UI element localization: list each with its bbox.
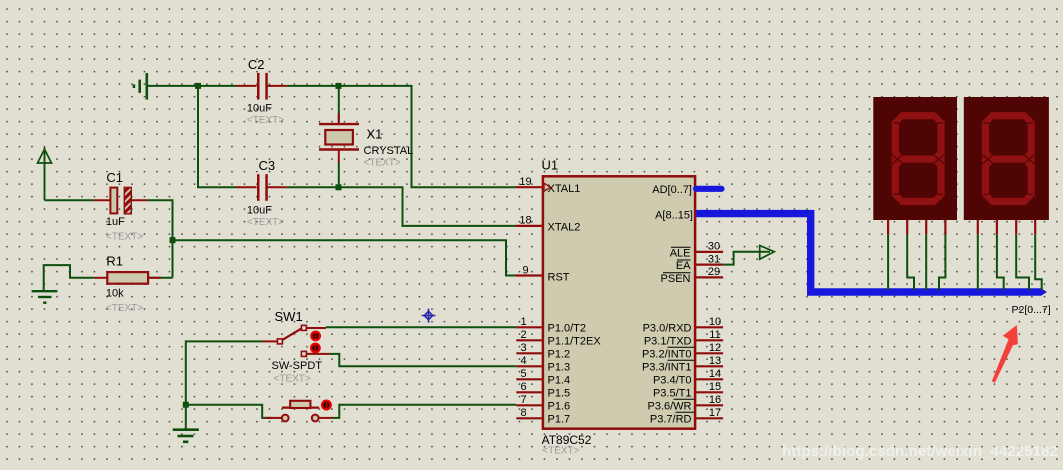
pin 11 P3.1/TXD (644, 329, 723, 347)
pin 9 RST (515, 264, 569, 283)
svg-text:P3.6/WR: P3.6/WR (647, 401, 691, 413)
pin 14 P3.4/T0 (653, 368, 723, 386)
7-segment display DS2 (964, 97, 1049, 220)
pin 7 P1.6 (516, 394, 570, 412)
junction X1 top (336, 83, 342, 89)
svg-text:5: 5 (520, 368, 526, 380)
svg-text:P2[0...7]: P2[0...7] (1012, 304, 1051, 316)
pin 6 P1.5 (516, 381, 570, 399)
pin 2 P1.1/T2EX (516, 329, 601, 347)
svg-text:<TEXT>: <TEXT> (364, 157, 401, 168)
svg-text:<TEXT>: <TEXT> (247, 217, 284, 228)
wire junction to ground (185, 405, 187, 429)
capacitor C2 (237, 57, 288, 126)
svg-text:https://blog.csdn.net/weixin_4: https://blog.csdn.net/weixin_44225182 (782, 443, 1058, 460)
svg-text:1uF: 1uF (106, 216, 125, 228)
ground (below SW1) (173, 430, 199, 442)
wire DS1 pin c (925, 235, 927, 290)
display pin stub (887, 220, 889, 235)
resistor R1 (94, 253, 173, 314)
wire SW1 top to P1.0 pin1 (326, 326, 516, 328)
display pin stub (944, 220, 946, 235)
ground (rotated, oscillator rail) (134, 73, 147, 100)
switch badge 2 (310, 343, 321, 354)
svg-text:P3.1/TXD: P3.1/TXD (644, 336, 692, 348)
push button (266, 401, 333, 422)
wire rail to button (186, 405, 273, 418)
display pin stub (996, 220, 998, 235)
svg-text:C1: C1 (106, 170, 123, 185)
pin 18 XTAL2 (515, 215, 580, 234)
svg-text:P3.3/INT1: P3.3/INT1 (642, 362, 692, 374)
wire node to RST pin9 (173, 240, 516, 275)
wire SW1 common to ground rail (186, 341, 263, 404)
svg-text:AD[0..7]: AD[0..7] (652, 184, 692, 196)
svg-text:18: 18 (519, 215, 531, 227)
svg-text:P1.4: P1.4 (548, 375, 571, 387)
wire C1 to RST node (147, 200, 172, 278)
7-segment display DS1 (873, 97, 957, 220)
wire XTAL1 rail top (147, 85, 237, 87)
svg-text:12: 12 (709, 342, 721, 354)
svg-text:P3.5/T1: P3.5/T1 (653, 388, 692, 400)
display pin stub (925, 220, 927, 235)
svg-text:1: 1 (520, 316, 526, 328)
svg-text:P1.5: P1.5 (548, 388, 571, 400)
svg-text:P3.2/INT0: P3.2/INT0 (642, 349, 692, 361)
svg-text:4: 4 (520, 355, 526, 367)
svg-text:<TEXT>: <TEXT> (247, 115, 284, 126)
svg-text:C3: C3 (259, 158, 276, 173)
svg-text:10uF: 10uF (247, 102, 272, 114)
pin 13 P3.3/INT1 (642, 355, 723, 373)
IC U1 AT89C52 (542, 158, 696, 457)
display pin stub (977, 220, 979, 235)
pin 31 EA (676, 253, 723, 272)
origin crosshair marker (422, 309, 436, 323)
svg-text:U1: U1 (542, 158, 559, 173)
svg-text:2: 2 (520, 329, 526, 341)
svg-text:C2: C2 (248, 57, 265, 72)
wire DS1 pin a (887, 235, 889, 290)
svg-text:P1.0/T2: P1.0/T2 (548, 323, 587, 335)
wire DS2 pin d (1035, 235, 1042, 290)
wire R1 to ground (44, 265, 94, 291)
svg-text:31: 31 (708, 253, 720, 265)
wire DS1 pin d (939, 235, 945, 290)
svg-text:7: 7 (520, 394, 526, 406)
svg-text:<TEXT>: <TEXT> (542, 446, 579, 457)
svg-text:XTAL1: XTAL1 (548, 183, 581, 195)
pin 15 P3.5/T1 (653, 381, 723, 399)
svg-text:9: 9 (522, 264, 528, 276)
svg-text:10: 10 (709, 316, 721, 328)
wire VCC to C1 (45, 199, 94, 201)
wire C3 rail (198, 86, 237, 187)
pin 19 XTAL1 (515, 176, 580, 195)
svg-text:19: 19 (519, 176, 531, 188)
svg-text:X1: X1 (367, 127, 383, 142)
svg-text:P1.6: P1.6 (548, 401, 571, 413)
wire EA to power terminal (723, 252, 770, 265)
svg-text:29: 29 (708, 266, 720, 278)
svg-text:10uF: 10uF (247, 205, 272, 217)
power terminal EA arrow (760, 246, 775, 260)
wire SW1 bottom to P1.3 pin4 (329, 354, 516, 366)
wire DS2 pin c (1016, 235, 1029, 290)
wire C3 to XTAL2 pin18 (287, 187, 515, 226)
pin 1 P1.0/T2 (516, 316, 586, 334)
svg-text:6: 6 (520, 381, 526, 393)
svg-text:SW-SPDT: SW-SPDT (272, 360, 323, 372)
svg-text:A[8..15]: A[8..15] (655, 210, 693, 222)
pin 29 PSEN (661, 266, 724, 285)
ground (left of R1) (32, 291, 58, 303)
wire DS2 pin b (997, 235, 1004, 290)
svg-text:<TEXT>: <TEXT> (106, 231, 143, 242)
wire button to P1.6 pin7 (333, 405, 517, 418)
svg-text:XTAL2: XTAL2 (548, 222, 581, 234)
svg-text:EA: EA (676, 260, 691, 272)
crystal X1 (319, 87, 413, 186)
svg-text:P1.1/T2EX: P1.1/T2EX (548, 336, 602, 348)
switch SW1 SPDT (263, 309, 329, 384)
pin 12 P3.2/INT0 (642, 342, 723, 360)
svg-text:16: 16 (709, 394, 721, 406)
svg-text:13: 13 (709, 355, 721, 367)
pin 5 P1.4 (516, 368, 570, 386)
XTAL1 clock arrow (544, 183, 551, 191)
svg-text:RST: RST (548, 271, 570, 283)
pin 17 P3.7/RD (650, 407, 723, 425)
junction node top rail (195, 83, 201, 89)
svg-text:8: 8 (520, 407, 526, 419)
svg-text:10k: 10k (106, 288, 124, 300)
wire DS1 pin b (907, 235, 914, 290)
capacitor C3 (237, 158, 288, 228)
svg-text:30: 30 (708, 241, 720, 253)
button badge (321, 400, 332, 411)
pin 16 P3.6/WR (647, 394, 723, 412)
svg-text:P3.4/T0: P3.4/T0 (653, 375, 692, 387)
display pin stub (1015, 220, 1017, 235)
svg-text:P1.3: P1.3 (548, 362, 571, 374)
svg-text:3: 3 (520, 342, 526, 354)
bus A[8..15] to displays (655, 210, 1047, 296)
svg-text:P1.7: P1.7 (548, 414, 571, 426)
svg-text:P3.7/RD: P3.7/RD (650, 414, 692, 426)
svg-text:PSEN: PSEN (661, 273, 691, 285)
pin 10 P3.0/RXD (643, 316, 724, 334)
svg-text:14: 14 (709, 368, 721, 380)
svg-text:P3.0/RXD: P3.0/RXD (643, 323, 692, 335)
pin 4 P1.3 (516, 355, 570, 373)
svg-text:17: 17 (709, 407, 721, 419)
pin 3 P1.2 (516, 342, 570, 360)
svg-text:P1.2: P1.2 (548, 349, 571, 361)
switch badge 1 (310, 331, 321, 342)
display pin stub (906, 220, 908, 235)
svg-text:ALE: ALE (670, 247, 691, 259)
capacitor C1 polarized (94, 170, 148, 242)
power terminal VCC arrow (38, 148, 52, 201)
annotation arrow (992, 325, 1018, 383)
pin 30 ALE (670, 241, 723, 260)
junction button rail (183, 402, 189, 408)
svg-text:CRYSTAL: CRYSTAL (364, 145, 414, 157)
junction RST node (170, 237, 176, 243)
pin 8 P1.7 (516, 407, 570, 425)
svg-text:<TEXT>: <TEXT> (274, 374, 311, 385)
junction X1 bottom (336, 184, 342, 190)
wire DS2 pin a (977, 235, 979, 290)
svg-text:R1: R1 (106, 253, 123, 268)
svg-text:SW1: SW1 (275, 309, 303, 324)
bus stub AD[0..7] (652, 184, 721, 196)
display pin stub (1034, 220, 1036, 235)
svg-text:<TEXT>: <TEXT> (106, 303, 143, 314)
wire C2 to XTAL1 pin19 (287, 86, 515, 187)
svg-text:11: 11 (709, 329, 720, 341)
svg-text:15: 15 (709, 381, 721, 393)
